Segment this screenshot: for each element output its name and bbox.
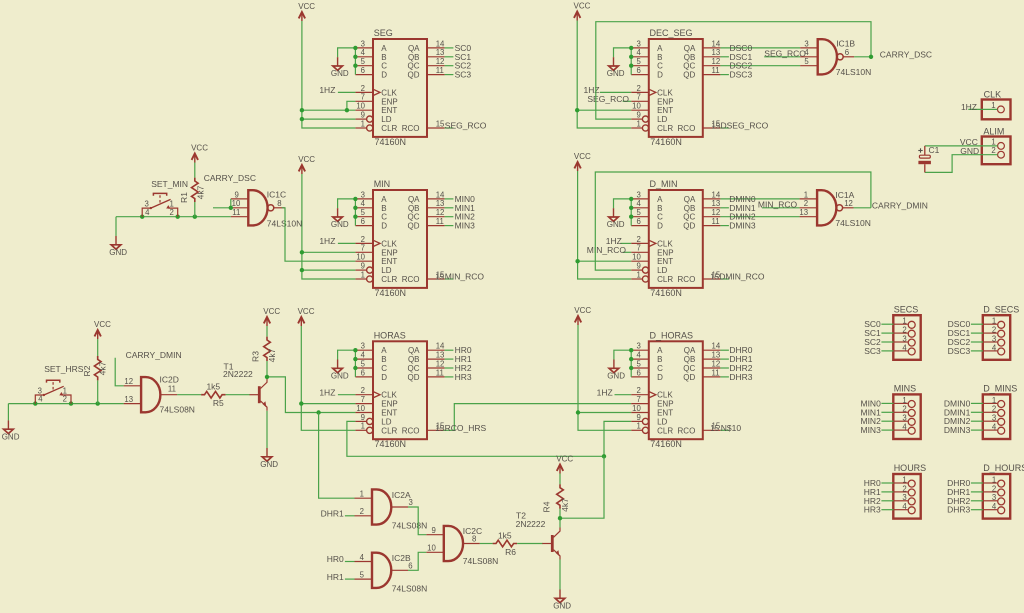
IC D_HORAS 74160N counter body: [631, 330, 721, 449]
svg-text:QD: QD: [408, 373, 420, 382]
net label N$10 from D_HORAS RCO: [710, 423, 741, 433]
svg-text:VCC: VCC: [298, 155, 315, 164]
wire D_HORAS ENT to VCC rail: [578, 412, 631, 414]
net label 1HZ at D_HORAS CLK: [597, 387, 632, 397]
svg-text:2: 2: [902, 484, 906, 493]
svg-text:GND: GND: [607, 220, 625, 229]
svg-text:12: 12: [436, 208, 445, 217]
svg-text:11: 11: [712, 66, 720, 75]
svg-text:15: 15: [435, 273, 444, 282]
svg-text:VCC: VCC: [263, 307, 280, 316]
svg-text:2: 2: [991, 146, 995, 155]
and gate IC2D 74LS08N: [124, 374, 195, 414]
net label 1HZ at HORAS CLK: [319, 387, 355, 397]
svg-text:QC: QC: [683, 364, 695, 373]
svg-text:QC: QC: [683, 62, 695, 71]
svg-text:5: 5: [804, 57, 809, 66]
net label 1HZ at DEC_SEG CLK: [584, 85, 632, 95]
wire RCO_HRS HORAS RCO to D_HORAS ENP: [444, 404, 632, 431]
wire CARRY_DSC loop back to DEC_SEG LD: [596, 22, 871, 119]
svg-text:LD: LD: [381, 417, 391, 426]
svg-text:6: 6: [636, 66, 640, 75]
wire VCC to R1: [194, 163, 196, 178]
svg-text:14: 14: [436, 342, 445, 351]
svg-text:VCC: VCC: [556, 454, 573, 463]
svg-text:QC: QC: [408, 364, 420, 373]
wire VCC rail SEG (ENT/LD/CLR): [302, 21, 356, 128]
svg-text:DMIN_RCO: DMIN_RCO: [719, 272, 765, 282]
ground symbol GND at SET_MIN: [109, 236, 127, 257]
svg-text:4: 4: [804, 48, 809, 57]
svg-text:LD: LD: [657, 417, 667, 426]
svg-text:QB: QB: [684, 53, 696, 62]
and gate IC2B 74LS08N: [355, 553, 428, 594]
svg-text:8: 8: [277, 199, 281, 208]
nand gate IC1C 74LS10N: [231, 190, 302, 229]
wire IC1B output to CARRY_DSC node: [854, 56, 871, 58]
svg-text:SECS: SECS: [894, 304, 919, 314]
svg-text:1: 1: [636, 119, 640, 128]
svg-text:4: 4: [361, 48, 366, 57]
svg-text:QD: QD: [408, 222, 420, 231]
svg-text:RCO: RCO: [402, 275, 420, 284]
svg-text:74160N: 74160N: [375, 288, 407, 298]
svg-text:2: 2: [636, 235, 640, 244]
wire SET_MIN to GND drop: [115, 217, 117, 236]
svg-text:B: B: [381, 204, 386, 213]
transistor T2 2N2222 NPN: [516, 511, 560, 560]
svg-text:74160N: 74160N: [375, 439, 407, 449]
VCC symbol above HORAS: [298, 307, 315, 326]
svg-text:DMIN3: DMIN3: [944, 425, 971, 435]
svg-text:ALIM: ALIM: [983, 126, 1004, 136]
net label DHR3 from D_HORAS QD: [720, 372, 752, 382]
wire GND net from ALIM pin 2 to C1: [925, 155, 998, 173]
switch SET_HRS push button: [35, 364, 83, 404]
wire T2 emitter to GND: [559, 560, 561, 590]
svg-text:3: 3: [902, 493, 906, 502]
svg-text:4: 4: [636, 48, 641, 57]
svg-text:DMIN3: DMIN3: [729, 221, 756, 231]
svg-text:A: A: [381, 195, 387, 204]
svg-text:15: 15: [435, 424, 444, 433]
svg-text:CLR: CLR: [381, 426, 397, 435]
svg-text:DHR3: DHR3: [947, 505, 970, 515]
svg-text:ENT: ENT: [381, 106, 397, 115]
svg-text:RCO_HRS: RCO_HRS: [445, 423, 487, 433]
svg-text:12: 12: [124, 377, 133, 386]
svg-text:5: 5: [636, 359, 641, 368]
svg-text:2: 2: [804, 199, 808, 208]
net label CARRY_DMIN at IC2D pin 12: [115, 350, 181, 386]
svg-text:GND: GND: [109, 248, 127, 257]
svg-text:2: 2: [170, 208, 174, 217]
svg-text:5: 5: [636, 57, 641, 66]
svg-text:10: 10: [632, 404, 641, 413]
svg-text:R6: R6: [505, 547, 516, 557]
svg-text:A: A: [657, 346, 663, 355]
svg-text:QC: QC: [408, 213, 420, 222]
svg-text:15: 15: [711, 122, 720, 131]
wire R6 to T2 base: [517, 543, 543, 545]
wire net SC2 to SECS pin 3: [881, 341, 893, 343]
svg-text:3: 3: [992, 414, 996, 423]
svg-text:13: 13: [436, 351, 445, 360]
svg-text:1HZ: 1HZ: [597, 387, 613, 397]
wire CARRY_DSC into IC1C pins 9 and 10: [213, 199, 231, 208]
wire MIN_RCO to IC1A pin 2: [762, 207, 800, 209]
net label MIN_RCO from MIN RCO: [435, 272, 484, 282]
svg-text:11: 11: [232, 208, 240, 217]
svg-text:QC: QC: [683, 213, 695, 222]
svg-text:A: A: [381, 346, 387, 355]
svg-text:MIN_RCO: MIN_RCO: [758, 199, 798, 209]
resistor R2 4k7: [82, 356, 108, 380]
net label MIN1 from MIN QB: [445, 203, 476, 213]
svg-text:N$10: N$10: [721, 423, 742, 433]
connector D_MINS: [983, 384, 1017, 440]
svg-text:GND: GND: [607, 69, 625, 78]
wire R2 to SET_HRS node: [97, 380, 99, 403]
IC HORAS 74160N counter body: [355, 330, 445, 449]
wire net MIN1 to MINS pin 2: [881, 411, 893, 413]
wire net DMIN0 to D_MINS pin 1: [971, 402, 983, 404]
svg-text:1HZ: 1HZ: [319, 236, 335, 246]
svg-text:MINS: MINS: [894, 384, 917, 394]
svg-text:2N2222: 2N2222: [223, 369, 253, 379]
svg-text:RCO: RCO: [402, 124, 420, 133]
svg-text:2: 2: [992, 484, 996, 493]
junction dots MIN inputs: [353, 197, 357, 219]
svg-text:SEG: SEG: [374, 28, 393, 38]
svg-text:QD: QD: [683, 71, 695, 80]
net label DHR2 from D_HORAS QC: [720, 363, 752, 373]
svg-text:5: 5: [361, 57, 366, 66]
svg-text:74LS08N: 74LS08N: [392, 583, 427, 593]
svg-text:C: C: [381, 213, 387, 222]
svg-text:DSC3: DSC3: [730, 70, 753, 80]
wire IC1A output to CARRY_DMIN node: [854, 207, 871, 209]
wire SET_HRS node to IC2D pin 13: [8, 403, 123, 405]
wire HORAS LD down to transistor collector rail: [347, 421, 604, 456]
svg-text:D_HOURS: D_HOURS: [983, 463, 1024, 473]
svg-text:QB: QB: [408, 204, 420, 213]
net label DMIN3 from D_MIN QD: [720, 221, 756, 231]
svg-text:14: 14: [436, 39, 445, 48]
svg-text:74LS08N: 74LS08N: [463, 556, 498, 566]
svg-text:3: 3: [361, 190, 365, 199]
svg-text:10: 10: [356, 102, 365, 111]
svg-text:1: 1: [804, 190, 808, 199]
svg-text:5: 5: [361, 359, 366, 368]
svg-text:C: C: [381, 62, 387, 71]
svg-text:7: 7: [361, 93, 365, 102]
svg-text:9: 9: [361, 262, 365, 271]
svg-text:RCO: RCO: [678, 426, 696, 435]
svg-text:6: 6: [845, 48, 849, 57]
svg-text:CLK: CLK: [381, 239, 397, 248]
junction dot D_MIN ENT: [575, 259, 579, 263]
connector HOURS: [893, 463, 926, 518]
svg-text:11: 11: [168, 384, 176, 393]
resistor R1 4k7: [179, 178, 205, 203]
svg-text:7: 7: [361, 395, 365, 404]
svg-text:C: C: [657, 364, 663, 373]
svg-text:7: 7: [636, 244, 640, 253]
net label DHR0 from D_HORAS QA: [720, 345, 752, 355]
svg-text:CLK: CLK: [381, 88, 397, 97]
svg-text:14: 14: [436, 190, 445, 199]
svg-text:6: 6: [636, 368, 640, 377]
wire IC2B output to IC2C pin 10: [408, 552, 426, 570]
wire VCC to R4: [559, 474, 561, 485]
VCC symbol above R1: [191, 143, 208, 162]
junction dots SEG inputs: [353, 46, 357, 68]
ground symbol GND at SET_HRS: [2, 420, 20, 441]
svg-text:VCC: VCC: [298, 307, 315, 316]
svg-text:QD: QD: [683, 222, 695, 231]
svg-text:CLR: CLR: [381, 275, 397, 284]
svg-text:MIN3: MIN3: [455, 221, 476, 231]
capacitor C1 polarized: [918, 145, 939, 173]
svg-text:1k5: 1k5: [206, 382, 220, 392]
svg-text:QA: QA: [408, 195, 420, 204]
wire net DSC2 to D_SECS pin 3: [971, 341, 983, 343]
net label SC1 from SEG QB: [445, 52, 472, 62]
svg-text:MIN3: MIN3: [860, 425, 881, 435]
wire D_HORAS LD to collector rail: [604, 421, 631, 456]
svg-text:1: 1: [991, 137, 995, 146]
and gate IC2A 74LS08N: [355, 489, 428, 530]
svg-text:3: 3: [361, 39, 365, 48]
svg-text:HORAS: HORAS: [374, 330, 406, 340]
svg-text:1: 1: [636, 422, 640, 431]
ground symbol GND at T2: [553, 590, 571, 611]
wire net DHR2 to D_HOURS pin 3: [971, 500, 983, 502]
net label RCO_HRS: [435, 423, 486, 433]
VCC symbol above D_MIN: [574, 152, 591, 171]
svg-text:14: 14: [712, 342, 721, 351]
IC D_MIN 74160N counter body: [631, 179, 721, 298]
wire MIN LD to VCC rail: [302, 269, 356, 271]
svg-text:CLK: CLK: [657, 391, 673, 400]
wire SET_MIN node to IC1C pin 11: [116, 216, 231, 218]
svg-text:ENP: ENP: [381, 248, 397, 257]
svg-text:B: B: [657, 53, 662, 62]
svg-text:6: 6: [361, 66, 365, 75]
svg-text:GND: GND: [331, 372, 349, 381]
svg-text:6: 6: [361, 368, 365, 377]
svg-text:D_HORAS: D_HORAS: [650, 330, 694, 340]
svg-text:13: 13: [436, 199, 445, 208]
wire VCC to R3: [266, 326, 268, 337]
svg-text:QA: QA: [684, 195, 696, 204]
svg-text:CARRY_DMIN: CARRY_DMIN: [126, 350, 182, 360]
svg-text:HR3: HR3: [864, 505, 881, 515]
svg-text:R2: R2: [82, 365, 92, 376]
svg-text:12: 12: [436, 57, 445, 66]
svg-text:4: 4: [902, 502, 907, 511]
wire net SC0 to SECS pin 1: [881, 323, 893, 325]
svg-text:CLK: CLK: [657, 88, 673, 97]
wire net HR0 to HOURS pin 1: [881, 482, 893, 484]
svg-text:IC1C: IC1C: [267, 190, 286, 200]
wire SEG A/B/C/D to GND: [338, 48, 356, 75]
svg-text:SEG_RCO: SEG_RCO: [445, 121, 487, 131]
svg-text:1HZ: 1HZ: [319, 85, 335, 95]
svg-text:4: 4: [145, 208, 150, 217]
svg-text:R1: R1: [179, 192, 189, 203]
svg-text:4: 4: [360, 553, 365, 562]
junction dots MIN VCC rail: [300, 250, 304, 272]
svg-text:1: 1: [992, 475, 996, 484]
svg-text:4: 4: [361, 199, 366, 208]
svg-text:5: 5: [360, 571, 365, 580]
wire net HR1 to HOURS pin 2: [881, 491, 893, 493]
svg-text:ENT: ENT: [657, 257, 673, 266]
svg-text:74LS08N: 74LS08N: [392, 520, 427, 530]
svg-text:GND: GND: [607, 372, 625, 381]
svg-text:ENT: ENT: [381, 257, 397, 266]
wire D_HORAS A/B/C/D to GND: [614, 350, 631, 377]
svg-text:4: 4: [902, 423, 907, 432]
VCC symbol above D_HORAS: [574, 306, 591, 325]
transistor T1 2N2222 NPN: [223, 362, 267, 411]
ground symbol GND at D_MIN: [607, 208, 625, 229]
svg-text:D_MINS: D_MINS: [983, 384, 1017, 394]
junction dots DEC_SEG inputs: [629, 46, 633, 68]
wire VCC rail DEC_SEG: [577, 21, 631, 129]
svg-text:B: B: [381, 53, 386, 62]
svg-text:D: D: [381, 373, 387, 382]
svg-text:6: 6: [361, 217, 365, 226]
svg-text:4: 4: [636, 351, 641, 360]
ground symbol GND at SEG: [331, 57, 349, 78]
svg-text:1: 1: [902, 396, 906, 405]
junction dot D_HORAS ENT: [576, 410, 580, 414]
svg-text:QB: QB: [408, 53, 420, 62]
svg-text:B: B: [657, 204, 662, 213]
svg-text:QA: QA: [408, 44, 420, 53]
svg-text:DHR3: DHR3: [729, 372, 752, 382]
svg-text:13: 13: [712, 48, 721, 57]
svg-text:14: 14: [712, 39, 721, 48]
net label 1HZ at D_MIN CLK: [606, 236, 631, 246]
net label MIN_RCO at D_MIN ENP: [587, 245, 631, 255]
junction dot LD rail: [602, 454, 606, 458]
svg-text:12: 12: [712, 208, 721, 217]
svg-text:QA: QA: [684, 346, 696, 355]
svg-text:2: 2: [63, 395, 67, 404]
svg-text:LD: LD: [657, 266, 667, 275]
svg-text:2: 2: [361, 84, 365, 93]
svg-text:SEG_RCO: SEG_RCO: [587, 94, 629, 104]
net label SC0 from SEG QA: [445, 43, 472, 53]
svg-text:ENT: ENT: [657, 409, 673, 418]
svg-text:10: 10: [632, 253, 641, 262]
net label DSEG_RCO from DEC_SEG RCO: [711, 121, 768, 131]
svg-text:SC3: SC3: [455, 70, 472, 80]
svg-text:A: A: [657, 195, 663, 204]
ground symbol GND at HORAS: [331, 360, 349, 381]
wire SEG ENT to VCC rail: [302, 109, 356, 111]
svg-text:1: 1: [902, 317, 906, 326]
svg-text:2: 2: [361, 235, 365, 244]
junction dots D_HORAS inputs: [629, 348, 633, 370]
resistor R6 1k5: [493, 530, 517, 557]
wire D_MIN ENT to VCC rail: [578, 260, 632, 262]
svg-text:7: 7: [361, 244, 365, 253]
svg-text:HR0: HR0: [327, 554, 344, 564]
wire collector rail down to T2 collector: [560, 456, 604, 518]
svg-text:2: 2: [361, 386, 365, 395]
wire net DSC3 to D_SECS pin 4: [971, 350, 983, 352]
svg-text:CARRY_DSC: CARRY_DSC: [880, 50, 932, 60]
wire T1 collector node to HORAS ENT: [267, 377, 355, 413]
svg-text:LD: LD: [657, 115, 667, 124]
svg-text:DSC3: DSC3: [948, 346, 971, 356]
svg-text:3: 3: [902, 414, 906, 423]
svg-text:1: 1: [992, 396, 996, 405]
svg-text:ENT: ENT: [657, 106, 673, 115]
connector D_HOURS: [983, 463, 1024, 518]
svg-text:R3: R3: [251, 351, 261, 362]
net label HR0 from HORAS QA: [445, 345, 472, 355]
svg-text:13: 13: [712, 351, 721, 360]
ground symbol GND at T1: [260, 448, 278, 469]
svg-text:B: B: [381, 355, 386, 364]
wire SEG ENP jog to ENT: [347, 101, 356, 110]
svg-text:1: 1: [361, 422, 365, 431]
svg-text:1: 1: [991, 101, 995, 110]
svg-text:IC2A: IC2A: [392, 490, 411, 500]
svg-text:12: 12: [712, 359, 721, 368]
wire D_MIN A/B/C/D to GND: [614, 199, 632, 226]
svg-text:VCC: VCC: [94, 320, 111, 329]
svg-text:QB: QB: [684, 355, 696, 364]
svg-text:13: 13: [712, 199, 721, 208]
wire net DHR3 to D_HOURS pin 4: [971, 509, 983, 511]
connector SECS: [893, 304, 920, 360]
wire IC1C output 8 to MIN ENT: [282, 208, 356, 261]
svg-text:7: 7: [636, 395, 640, 404]
wire VCC rail HORAS (ENP/CLR): [301, 326, 355, 430]
svg-text:IC2D: IC2D: [160, 374, 179, 384]
svg-text:10: 10: [427, 544, 436, 553]
junction dot T2 collector: [558, 516, 562, 520]
svg-text:QD: QD: [683, 373, 695, 382]
VCC symbol above R3: [263, 307, 280, 326]
svg-text:4k7: 4k7: [97, 361, 107, 375]
svg-text:3: 3: [992, 493, 996, 502]
svg-text:D: D: [657, 373, 663, 382]
svg-text:DSEG_RCO: DSEG_RCO: [721, 121, 769, 131]
svg-text:CLR: CLR: [657, 275, 673, 284]
wire IC2C output to R6: [480, 543, 493, 545]
svg-text:ENT: ENT: [381, 409, 397, 418]
wire net DHR1 to D_HOURS pin 2: [971, 491, 983, 493]
svg-text:4k7: 4k7: [195, 185, 205, 199]
svg-text:CLR: CLR: [381, 124, 397, 133]
svg-text:HR3: HR3: [455, 372, 472, 382]
svg-text:74LS10N: 74LS10N: [835, 218, 870, 228]
svg-text:MIN_RCO: MIN_RCO: [445, 272, 485, 282]
connector ALIM: [982, 126, 1011, 164]
net label HR1 from HORAS QB: [445, 354, 472, 364]
IC DEC_SEG 74160N counter body: [631, 28, 721, 147]
svg-text:9: 9: [361, 413, 365, 422]
svg-text:10: 10: [232, 199, 241, 208]
